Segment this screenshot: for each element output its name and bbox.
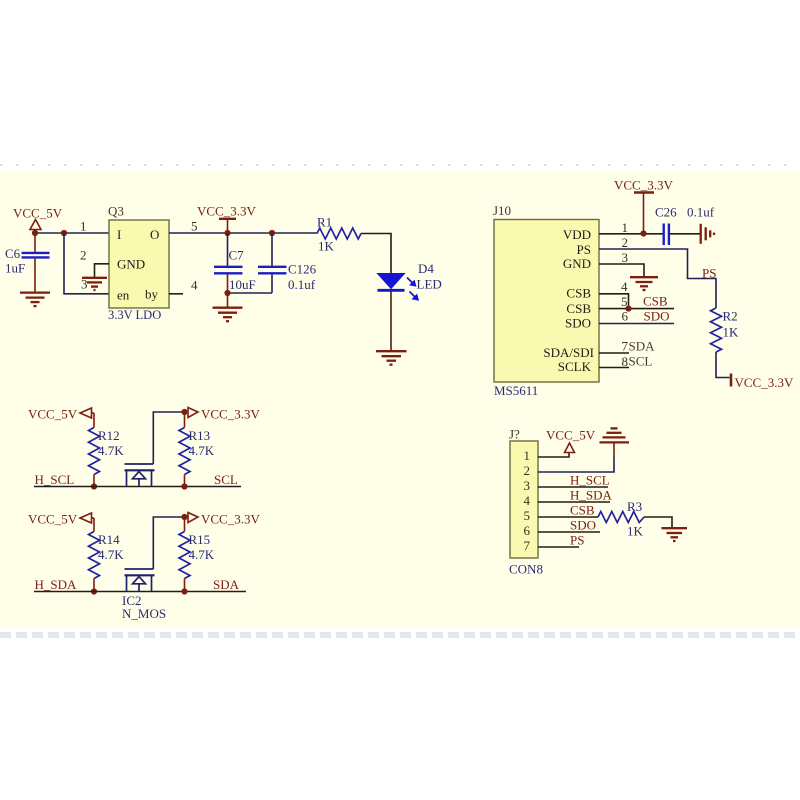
power port VCC_5V (SCL shifter) <box>28 407 94 422</box>
svg-text:H_SDA: H_SDA <box>570 488 613 503</box>
svg-text:en: en <box>117 288 130 303</box>
svg-text:2: 2 <box>622 235 629 250</box>
resistor R1 <box>317 215 361 254</box>
svg-text:VCC_3.3V: VCC_3.3V <box>201 512 260 527</box>
resistor R15 <box>179 532 215 579</box>
svg-text:4.7K: 4.7K <box>189 443 215 458</box>
ground below C7 <box>213 293 243 321</box>
svg-text:I: I <box>117 227 121 242</box>
wire gate to VCC_3.3V (SCL) <box>153 412 184 464</box>
wire R3 to ground <box>644 517 672 528</box>
wire Q3 GND pin 2 <box>95 264 110 277</box>
wire H_SCL to SCL <box>34 486 241 488</box>
power port VCC_3.3V (LDO output) <box>197 204 256 234</box>
svg-text:O: O <box>150 227 159 242</box>
junction node at C126 <box>269 230 275 236</box>
junction node at C7 <box>224 230 230 236</box>
junction node H_SCL / R12 <box>91 483 97 489</box>
svg-text:3: 3 <box>622 250 629 265</box>
wire VCC_5V to R12 <box>93 413 95 428</box>
resistor R14 <box>89 532 125 579</box>
capacitor C6 <box>5 233 50 292</box>
svg-text:0.1uf: 0.1uf <box>288 277 316 292</box>
power port VCC_5V (SDA shifter) <box>28 512 94 527</box>
svg-text:R2: R2 <box>723 308 738 323</box>
svg-text:H_SDA: H_SDA <box>35 577 78 592</box>
wire pin 6 SDO <box>599 323 674 325</box>
power port VCC_3.3V (MS5611) <box>614 178 673 234</box>
wire pin 7 stub <box>599 352 629 354</box>
svg-text:1: 1 <box>80 219 87 234</box>
ground at Q3 pin 2 <box>82 278 107 290</box>
svg-text:GND: GND <box>563 256 591 271</box>
svg-text:10uF: 10uF <box>229 277 256 292</box>
schematic sheet background <box>0 170 800 628</box>
resistor R3 <box>598 499 644 539</box>
wire pin 2 PS net <box>599 249 716 308</box>
transistor IC2 (SDA mosfet) <box>125 569 155 592</box>
svg-text:VCC_5V: VCC_5V <box>13 206 63 221</box>
svg-text:J10: J10 <box>493 203 511 218</box>
svg-text:6: 6 <box>524 523 531 538</box>
inverted ground (CON8 pin 2) <box>600 428 630 442</box>
power port VCC_5V (top left) <box>13 206 63 234</box>
junction node VDD / VCC_3.3V <box>640 230 646 236</box>
svg-text:0.1uf: 0.1uf <box>687 205 715 220</box>
svg-text:GND: GND <box>117 256 145 271</box>
wire VCC_3.3V to R13 <box>184 412 186 428</box>
connector J? body <box>510 441 538 558</box>
wire pin 6 SDO <box>538 531 600 533</box>
svg-text:PS: PS <box>570 532 584 547</box>
ground at pin 3 <box>630 277 658 290</box>
svg-text:1: 1 <box>524 448 531 463</box>
wire R15 to SDA node <box>184 579 186 592</box>
svg-text:VCC_5V: VCC_5V <box>546 428 596 443</box>
svg-text:SDA/SDI: SDA/SDI <box>543 345 594 360</box>
svg-text:CSB: CSB <box>643 294 668 309</box>
wire H_SDA to SDA <box>34 591 246 593</box>
svg-text:R15: R15 <box>189 532 211 547</box>
resistor R2 <box>711 308 740 352</box>
svg-text:5: 5 <box>524 508 531 523</box>
svg-text:4: 4 <box>621 279 628 294</box>
top dashed border <box>0 164 800 166</box>
svg-text:2: 2 <box>524 463 531 478</box>
wire VCC_5V to R14 <box>93 518 95 532</box>
svg-text:4.7K: 4.7K <box>189 547 215 562</box>
svg-text:VCC_3.3V: VCC_3.3V <box>735 375 794 390</box>
svg-text:VCC_3.3V: VCC_3.3V <box>197 204 256 219</box>
svg-text:SDO: SDO <box>570 517 596 532</box>
ground after R3 <box>662 528 688 541</box>
wire R2 to VCC_3.3V port <box>716 352 730 378</box>
svg-text:CSB: CSB <box>566 286 591 301</box>
svg-text:N_MOS: N_MOS <box>122 606 166 621</box>
svg-text:J?: J? <box>509 427 520 442</box>
wire pin 8 stub <box>599 367 629 369</box>
wire pin 1 to VCC_5V <box>538 453 569 458</box>
wire pin 5 CSB <box>599 308 674 310</box>
capacitor C26 <box>655 205 715 246</box>
junction node CSB tie <box>625 306 631 312</box>
svg-text:4.7K: 4.7K <box>98 443 124 458</box>
svg-text:1K: 1K <box>627 524 644 539</box>
wire ground stem <box>613 442 615 457</box>
wire pin 2 to ground <box>538 457 614 472</box>
wire pin 4 H_SDA <box>538 501 610 503</box>
junction node VCC_3.3V / R15 <box>181 514 187 520</box>
wire VCC_3.3V to R15 <box>184 517 186 532</box>
svg-text:SDO: SDO <box>644 308 670 323</box>
wire R1 to LED <box>361 234 391 274</box>
wire VCC_5V to Q3 pin 1 <box>35 232 109 234</box>
junction node SCL / R13 <box>181 483 187 489</box>
svg-text:CSB: CSB <box>570 502 595 517</box>
svg-text:VCC_3.3V: VCC_3.3V <box>201 407 260 422</box>
wire LED cathode to ground <box>390 292 392 351</box>
LED D4 <box>378 261 442 301</box>
svg-text:3: 3 <box>524 478 531 493</box>
svg-text:H_SCL: H_SCL <box>570 472 610 487</box>
resistor R12 <box>89 428 125 475</box>
junction node at en branch <box>61 230 67 236</box>
ground below LED <box>376 351 407 365</box>
svg-text:C26: C26 <box>655 205 677 220</box>
capacitor C126 <box>258 233 317 293</box>
wire Q3 output rail <box>169 232 317 234</box>
wire pin 3 GND <box>599 264 644 277</box>
svg-text:SDA: SDA <box>213 577 240 592</box>
svg-text:VDD: VDD <box>563 227 591 242</box>
ground below C6 <box>20 293 50 307</box>
ground (rotated) after C26 <box>701 224 714 244</box>
power port VCC_5V (CON8) <box>546 428 596 453</box>
wire gate to VCC_3.3V (SDA) <box>153 517 184 569</box>
wire en branch to Q3 pin 3 <box>64 233 109 294</box>
svg-text:1: 1 <box>622 220 629 235</box>
wire R13 to SCL node <box>184 475 186 487</box>
wire R14 to H_SDA node <box>93 579 95 592</box>
junction node H_SDA / R14 <box>91 588 97 594</box>
svg-text:1K: 1K <box>318 239 335 254</box>
capacitor C7 <box>214 233 256 293</box>
svg-text:SCL: SCL <box>629 353 653 368</box>
wire Q3 by pin 4 stub <box>169 293 183 295</box>
svg-text:MS5611: MS5611 <box>494 383 538 398</box>
svg-text:LED: LED <box>417 276 442 291</box>
svg-text:C6: C6 <box>5 246 21 261</box>
junction node VCC_3.3V / R13 <box>181 409 187 415</box>
svg-text:2: 2 <box>80 248 87 263</box>
svg-text:SCLK: SCLK <box>558 359 592 374</box>
svg-text:PS: PS <box>702 266 716 281</box>
svg-text:VCC_5V: VCC_5V <box>28 512 78 527</box>
wire pin 3 H_SCL <box>538 486 608 488</box>
svg-text:R12: R12 <box>98 428 120 443</box>
svg-text:CSB: CSB <box>566 301 591 316</box>
svg-text:C126: C126 <box>288 262 317 277</box>
svg-text:CON8: CON8 <box>509 562 543 577</box>
wire C126 bottom to C7 bottom <box>228 292 273 294</box>
wire pin 4 CSB tie to pin 5 <box>599 294 629 309</box>
svg-text:3.3V LDO: 3.3V LDO <box>108 308 161 322</box>
power port VCC_3.3V (right, sideways bar) <box>731 374 794 391</box>
svg-text:4: 4 <box>191 278 198 293</box>
junction node at C6 <box>32 230 38 236</box>
wire pin 1 VDD to C26 <box>599 233 663 235</box>
svg-text:7: 7 <box>622 338 629 353</box>
svg-text:5: 5 <box>191 219 198 234</box>
svg-text:1K: 1K <box>723 324 740 339</box>
power port VCC_3.3V (SCL shifter) <box>188 407 260 422</box>
svg-text:R13: R13 <box>189 428 211 443</box>
svg-text:4: 4 <box>524 493 531 508</box>
wire pin 7 PS <box>538 546 579 548</box>
power port VCC_3.3V (SDA shifter) <box>188 512 260 527</box>
junction node below C7 <box>224 290 230 296</box>
svg-text:PS: PS <box>577 242 591 257</box>
wire R12 to H_SCL node <box>93 475 95 487</box>
transistor Q (SCL mosfet) <box>125 464 155 487</box>
svg-text:by: by <box>145 287 159 302</box>
svg-text:4.7K: 4.7K <box>98 547 124 562</box>
svg-text:Q3: Q3 <box>108 204 124 219</box>
connector J10 body <box>494 220 599 383</box>
svg-text:H_SCL: H_SCL <box>35 472 75 487</box>
svg-text:7: 7 <box>524 538 531 553</box>
resistor R13 <box>179 428 215 475</box>
svg-text:1uF: 1uF <box>5 261 25 276</box>
junction node SDA / R15 <box>181 588 187 594</box>
svg-text:VCC_5V: VCC_5V <box>28 407 78 422</box>
wire pin 5 CSB to R3 <box>538 516 598 518</box>
svg-text:SDO: SDO <box>565 316 591 331</box>
svg-text:SCL: SCL <box>214 472 238 487</box>
svg-text:8: 8 <box>622 354 629 369</box>
svg-text:D4: D4 <box>418 261 434 276</box>
svg-text:SDA: SDA <box>629 338 656 353</box>
svg-text:VCC_3.3V: VCC_3.3V <box>614 178 673 193</box>
bottom dashed border <box>0 632 800 638</box>
svg-text:C7: C7 <box>229 248 245 263</box>
svg-text:R14: R14 <box>98 532 120 547</box>
regulator U Q3 body <box>109 220 169 308</box>
